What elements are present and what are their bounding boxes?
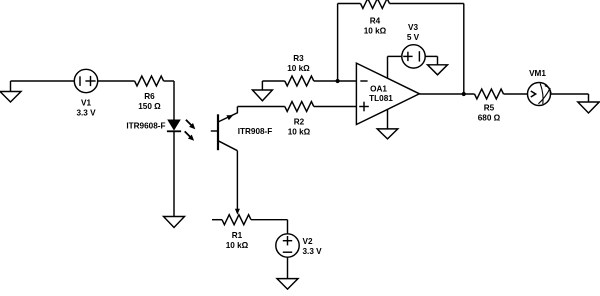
- svg-text:TL081: TL081: [369, 94, 393, 103]
- wire R3 to inverting input: [314, 80, 357, 82]
- svg-text:3.3 V: 3.3 V: [76, 108, 96, 117]
- wire V3 to ground: [425, 56, 437, 64]
- wiper arrow into R1: [235, 209, 240, 215]
- wire R1 to V2: [251, 220, 288, 234]
- svg-text:OA1: OA1: [370, 84, 387, 93]
- voltmeter VM1: [528, 83, 552, 106]
- ground for V1: [0, 81, 21, 102]
- svg-text:150 Ω: 150 Ω: [138, 102, 161, 111]
- svg-text:V2: V2: [303, 237, 313, 246]
- op-amp minus sign: [360, 80, 367, 82]
- op-amp V+ wire: [388, 56, 402, 78]
- svg-text:10 kΩ: 10 kΩ: [288, 128, 311, 137]
- label VM1: [529, 69, 546, 78]
- label OA1: [369, 84, 393, 103]
- wire emitter down: [236, 151, 238, 210]
- label R4: [364, 17, 387, 36]
- label V3: [407, 23, 420, 42]
- op-amp V- wire: [387, 109, 389, 128]
- label V1: [76, 98, 96, 117]
- voltage source V2: [276, 234, 299, 257]
- resistor R6: [135, 76, 164, 86]
- LED cathode bar: [167, 130, 181, 132]
- phototransistor emitter: [218, 141, 237, 151]
- LED light arrow 2: [185, 131, 194, 140]
- ground below V2: [277, 279, 298, 290]
- phototransistor Q1 base bar: [217, 114, 219, 150]
- wire V1 to R6: [98, 80, 135, 82]
- wire R6 to LED: [164, 81, 174, 120]
- label R2: [288, 118, 311, 137]
- phototransistor collector: [218, 107, 237, 123]
- wire collector to R2: [238, 106, 285, 108]
- svg-text:R3: R3: [293, 54, 304, 63]
- resistor R1 potentiometer: [212, 215, 251, 225]
- wire VM1 to ground: [551, 94, 589, 102]
- svg-text:V1: V1: [81, 98, 91, 107]
- label ITR908-F: [238, 127, 273, 136]
- svg-text:3.3 V: 3.3 V: [303, 247, 323, 256]
- wire V2 to ground: [287, 257, 289, 279]
- phototransistor base stub: [211, 130, 218, 132]
- svg-text:R4: R4: [370, 17, 381, 26]
- wire R5 to VM1: [504, 93, 528, 95]
- svg-text:R6: R6: [144, 92, 155, 101]
- wire LED to ground: [173, 131, 175, 216]
- svg-text:V3: V3: [408, 23, 418, 32]
- wire ground to V1: [11, 80, 75, 82]
- svg-text:10 kΩ: 10 kΩ: [226, 241, 249, 250]
- voltage source V1: [74, 69, 97, 92]
- wire R4 to output node: [390, 4, 464, 95]
- ground for VM1: [578, 102, 599, 113]
- label V2: [303, 237, 323, 256]
- resistor R4: [361, 0, 390, 9]
- svg-text:ITR908-F: ITR908-F: [238, 127, 273, 136]
- ground below op-amp: [377, 129, 398, 139]
- op-amp plus sign: [359, 102, 369, 112]
- resistor R5: [475, 89, 504, 99]
- op-amp OA1 body: [356, 63, 419, 124]
- label R5: [478, 104, 501, 123]
- svg-text:R5: R5: [484, 104, 495, 113]
- resistor R3: [285, 76, 314, 86]
- svg-text:R2: R2: [294, 118, 305, 127]
- label ITR9608-F: [126, 121, 165, 130]
- label R6: [138, 92, 161, 111]
- label R3: [287, 54, 310, 73]
- ground below LED: [164, 217, 185, 228]
- wire output to R5: [419, 93, 474, 95]
- svg-text:ITR9608-F: ITR9608-F: [126, 121, 165, 130]
- ground for R3: [252, 81, 272, 101]
- ground for V3: [428, 65, 448, 75]
- svg-text:680 Ω: 680 Ω: [478, 114, 501, 123]
- svg-text:10 kΩ: 10 kΩ: [287, 64, 310, 73]
- wire ground to R3: [262, 80, 284, 82]
- node at output: [462, 92, 466, 96]
- wire top left segment: [338, 3, 361, 5]
- LED light arrow 1: [186, 120, 195, 129]
- svg-text:10 kΩ: 10 kΩ: [364, 27, 387, 36]
- svg-text:R1: R1: [232, 231, 243, 240]
- wire R2 to non-inverting input: [314, 106, 357, 108]
- wire node up to feedback: [337, 4, 339, 82]
- label R1: [226, 231, 249, 250]
- node at inverting input: [336, 79, 340, 83]
- svg-text:5 V: 5 V: [407, 33, 420, 42]
- voltage source V3: [402, 45, 425, 68]
- svg-text:VM1: VM1: [529, 69, 546, 78]
- LED ITR9608-F anode triangle: [167, 120, 181, 131]
- resistor R2: [285, 102, 314, 112]
